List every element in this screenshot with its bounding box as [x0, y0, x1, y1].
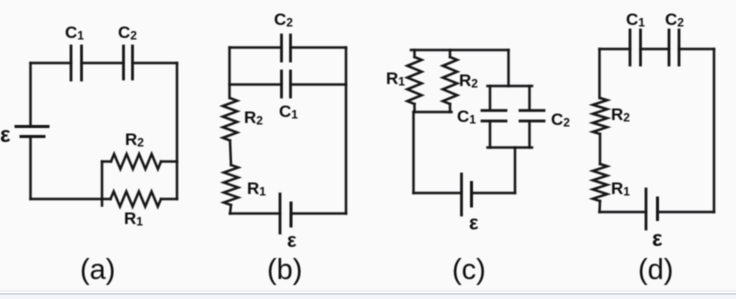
battery ε (circuit c): [460, 174, 463, 215]
svg-text:C2: C2: [551, 110, 570, 130]
wire: circuit d, top side with nodes for C1 and C2: [600, 48, 715, 51]
wire: circuit a, R2 branch leads: [102, 160, 177, 163]
wire: circuit a, right side: [176, 63, 179, 199]
svg-text:R1: R1: [611, 179, 630, 199]
svg-text:C2: C2: [665, 10, 684, 30]
wire: circuit b, bottom side: [230, 212, 346, 215]
battery ε (circuit a): [16, 125, 48, 128]
resistor R1 (circuit a): [111, 192, 162, 207]
capacitor C2 (circuit a): [124, 46, 133, 79]
resistor R2 (circuit c) with leads: [449, 50, 452, 112]
svg-text:R2: R2: [244, 108, 263, 128]
capacitor C2 (circuit c) with leads: [528, 86, 531, 148]
svg-text:C1: C1: [457, 107, 476, 127]
capacitor C1 (circuit a): [71, 46, 82, 80]
wire: circuit c, feed from top wire into block: [507, 50, 510, 86]
svg-text:ε: ε: [469, 213, 479, 235]
wire: circuit c, right riser to capacitor block: [514, 148, 517, 194]
wire: circuit d, left side: [598, 49, 601, 212]
svg-text:ε: ε: [0, 122, 11, 147]
svg-text:R1: R1: [124, 209, 143, 229]
svg-text:C1: C1: [65, 23, 84, 43]
capacitor C1 (circuit d): [630, 30, 641, 65]
wire: circuit b, top branch with C2: [230, 46, 347, 49]
resistor R2 (circuit b): [223, 98, 237, 141]
svg-text:(c): (c): [452, 254, 486, 286]
wire: circuit d, bottom side: [600, 211, 715, 214]
wire: circuit a, bottom right segment: [161, 198, 177, 201]
wire: circuit c, capacitor block top rail: [488, 85, 533, 88]
svg-text:(d): (d): [638, 254, 673, 286]
battery ε (circuit b): [279, 194, 282, 233]
svg-text:C1: C1: [626, 10, 645, 30]
wire: circuit a, bottom side to node: [31, 198, 111, 201]
wire: circuit c, capacitor block bottom rail: [488, 146, 533, 149]
svg-text:R2: R2: [459, 71, 478, 91]
svg-text:R2: R2: [125, 130, 144, 150]
svg-text:R2: R2: [611, 105, 630, 125]
capacitor C2 (circuit b): [282, 35, 291, 61]
resistor R1 (circuit c) with leads: [413, 50, 416, 112]
wire: circuit c, node joining R1 and R2 bottoms: [414, 111, 452, 114]
resistor R2 (circuit d): [593, 98, 607, 134]
wire: circuit c, top side: [411, 49, 509, 52]
wire: circuit a, top side with nodes for C1 and C2: [31, 62, 178, 65]
svg-text:ε: ε: [287, 230, 297, 252]
resistor R1 (circuit b): [224, 165, 238, 205]
capacitor C1 (circuit c) with leads: [489, 86, 492, 148]
svg-text:C2: C2: [118, 23, 137, 43]
capacitor C2 (circuit d): [669, 30, 679, 65]
resistor R2 (circuit a): [111, 154, 161, 169]
wire: circuit c, left side down: [412, 112, 415, 193]
battery ε (circuit d): [645, 189, 648, 229]
wire: circuit a, left side: [29, 63, 32, 199]
svg-text:ε: ε: [652, 226, 663, 251]
wire: circuit d, right side: [713, 49, 716, 212]
svg-text:R1: R1: [247, 179, 266, 199]
svg-text:C2: C2: [274, 10, 293, 30]
wire: circuit b, right side: [345, 48, 348, 214]
svg-text:R1: R1: [386, 69, 405, 89]
wire: circuit b, left side: [230, 48, 232, 214]
wire: circuit a, junction riser at node: [101, 162, 104, 206]
capacitor C1 (circuit b): [282, 71, 291, 97]
svg-text:(b): (b): [267, 254, 302, 286]
svg-text:C1: C1: [279, 102, 298, 122]
wire: circuit c, bottom side: [414, 192, 516, 195]
resistor R1 (circuit d): [593, 164, 607, 201]
svg-text:(a): (a): [80, 254, 115, 286]
wire: circuit b, lower branch with C1: [230, 83, 347, 86]
